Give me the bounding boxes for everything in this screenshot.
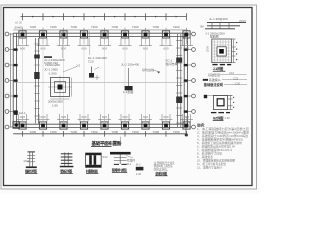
svg-text:7200: 7200 [111,25,118,29]
svg-text:M-1: M-1 [127,162,132,166]
svg-text:配筋图: 配筋图 [210,35,219,39]
svg-text:Φ12: Φ12 [102,155,108,159]
svg-text:2Φ25: 2Φ25 [239,19,246,23]
svg-text:600: 600 [184,47,189,51]
svg-text:1:30: 1:30 [224,116,230,120]
svg-text:柱间支撑: 柱间支撑 [166,61,178,66]
svg-text:GZ-1: GZ-1 [19,111,26,115]
svg-text:GZ详图: GZ详图 [213,115,224,120]
svg-text:7200: 7200 [29,25,36,29]
svg-text:基础做法说明: 基础做法说明 [203,82,224,87]
svg-text:J-2: J-2 [76,64,80,68]
svg-text:C20: C20 [88,59,94,63]
svg-text:7200: 7200 [132,25,139,29]
svg-text:1:50: 1:50 [52,103,58,107]
svg-text:JL-1 250x400: JL-1 250x400 [121,62,140,66]
svg-text:柱脚剖面: 柱脚剖面 [85,169,99,174]
svg-text:7200: 7200 [152,130,159,134]
svg-text:C30: C30 [235,81,241,85]
svg-text:7200: 7200 [111,130,118,134]
svg-text:垫板详图: 垫板详图 [60,169,72,174]
svg-text:7200: 7200 [173,25,180,29]
svg-text:M24: M24 [24,159,30,163]
svg-text:7200: 7200 [70,130,77,134]
svg-text:7200x1200: 7200x1200 [45,63,60,67]
svg-text:J-1详图: J-1详图 [213,66,224,71]
svg-text:12、本图尺寸毫米计: 12、本图尺寸毫米计 [197,165,222,170]
svg-text:锚栓详图: 锚栓详图 [25,169,37,174]
svg-text:±0.00: ±0.00 [15,20,22,24]
svg-text:7200: 7200 [152,25,159,29]
svg-text:基础垫层: 基础垫层 [208,72,220,77]
svg-text:7200: 7200 [91,130,98,134]
svg-text:说明详图: 说明详图 [155,171,167,176]
svg-text:7200: 7200 [50,25,57,29]
svg-text:1:20: 1:20 [136,172,142,176]
svg-text:7200: 7200 [50,130,57,134]
svg-text:基础梁JL: 基础梁JL [209,77,222,82]
svg-text:M-2: M-2 [136,162,141,166]
svg-text:C10: C10 [229,71,235,75]
svg-text:7200: 7200 [29,130,36,134]
svg-text:基坑边线: 基坑边线 [142,67,154,72]
svg-text:-1.500: -1.500 [48,72,57,76]
svg-text:C25: C25 [233,76,239,80]
svg-text:Φ8: Φ8 [200,25,204,29]
svg-text:50400: 50400 [15,26,24,30]
svg-text:2500: 2500 [206,45,210,52]
svg-text:7200: 7200 [173,130,180,134]
svg-text:预埋件详图: 预埋件详图 [112,168,127,173]
svg-text:JL-1 Φ8@200: JL-1 Φ8@200 [209,17,228,21]
svg-text:7200: 7200 [91,25,98,29]
svg-text:7200: 7200 [70,25,77,29]
svg-text:7200: 7200 [132,130,139,134]
